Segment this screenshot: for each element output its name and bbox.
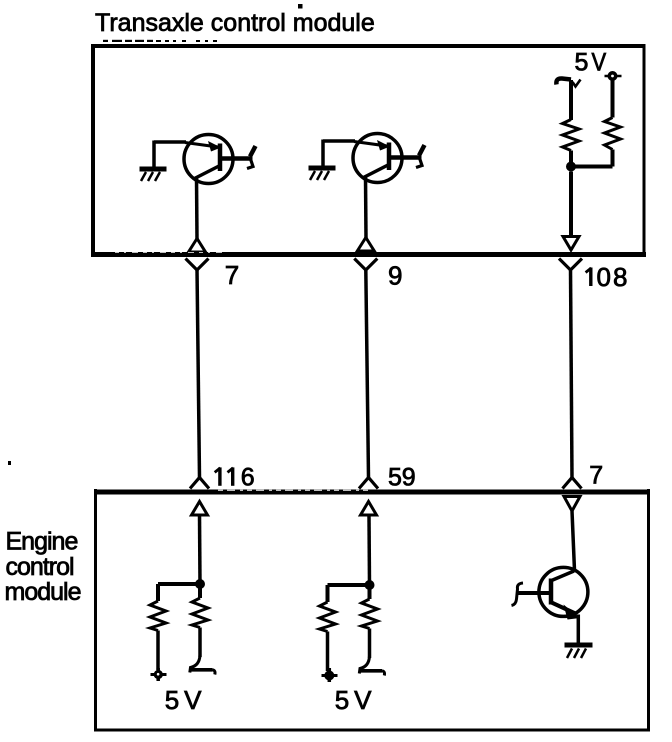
svg-text:7: 7 xyxy=(225,260,239,290)
svg-text:08: 08 xyxy=(597,262,630,292)
svg-text:Transaxle control module: Transaxle control module xyxy=(95,9,375,37)
svg-text:59: 59 xyxy=(388,464,415,492)
svg-text:9: 9 xyxy=(388,261,402,291)
svg-text:V: V xyxy=(592,48,607,76)
svg-text:7: 7 xyxy=(589,462,603,490)
svg-text:module: module xyxy=(5,578,81,606)
svg-text:5 V: 5 V xyxy=(335,685,372,715)
svg-text:6: 6 xyxy=(241,464,255,492)
svg-text:Engine: Engine xyxy=(6,527,78,555)
svg-text:5 V: 5 V xyxy=(165,685,202,715)
svg-text:control: control xyxy=(6,553,74,581)
svg-text:5: 5 xyxy=(575,49,589,77)
